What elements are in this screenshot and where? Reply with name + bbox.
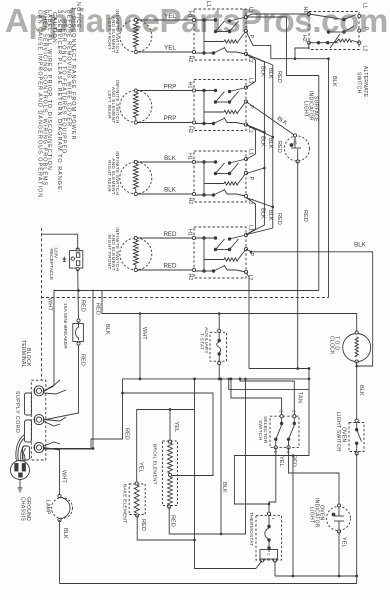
bus BLK vertical [246, 62, 264, 235]
label wire colors [164, 11, 193, 62]
svg-text:RED: RED [163, 263, 177, 270]
120V receptacle [62, 248, 83, 271]
svg-text:YEL: YEL [164, 13, 176, 20]
label broil element [152, 444, 158, 485]
wire T3 to lamp WHT [44, 448, 60, 496]
label RIGHT FRONT element name [107, 227, 120, 271]
element E1 (surface unit Left Front) [120, 18, 152, 53]
wire thermostat bottom left [256, 561, 262, 569]
svg-text:YEL: YEL [341, 537, 347, 548]
label BLK on staircase drop [331, 76, 337, 87]
infinite switch S1 [192, 9, 247, 60]
wire bottom collector y576 [275, 575, 357, 577]
wire oven light switch to bottom bus [356, 454, 358, 584]
svg-text:LIGHT: LIGHT [308, 507, 314, 523]
svg-text:BLK: BLK [260, 208, 266, 219]
svg-text:RECEPTACLE: RECEPTACLE [48, 249, 54, 281]
wire BLK bus P4 to right edge [246, 249, 373, 366]
selector switch [270, 415, 299, 449]
svg-text:PRP: PRP [164, 115, 177, 122]
wire clock to oven light switch BLK [356, 362, 358, 420]
element E4 (surface unit Right Front) [120, 236, 152, 271]
labels BLK BLK RED mid [260, 136, 282, 153]
wire H1 YEL [138, 19, 195, 21]
svg-text:RED: RED [140, 519, 146, 531]
svg-text:YEL: YEL [164, 45, 176, 52]
wire link L2_1 to L1_2 [246, 54, 256, 88]
svg-text:L1: L1 [248, 149, 254, 155]
svg-text:H2: H2 [187, 198, 193, 205]
svg-text:WHT: WHT [61, 470, 67, 483]
wire L2_4 drop to band [246, 273, 249, 369]
alternate switch [307, 12, 361, 50]
element E2 (surface unit Left Rear) [120, 89, 152, 124]
T.O.D. clock [343, 331, 371, 363]
wire riser x245.5 [221, 379, 246, 534]
svg-text:SWITCH: SWITCH [257, 420, 263, 440]
svg-text:CHASSIS: CHASSIS [20, 497, 26, 521]
svg-text:LAMP: LAMP [45, 500, 51, 515]
wire selector YEL to thermostat [269, 447, 276, 512]
svg-text:BLK: BLK [354, 242, 367, 249]
wire RED drop x93 [92, 290, 94, 449]
supply cord lugs [16, 393, 32, 462]
svg-text:15A MINI-BREAKER: 15A MINI-BREAKER [62, 303, 68, 349]
svg-text:BLK: BLK [164, 187, 177, 194]
svg-text:BLK: BLK [221, 482, 227, 493]
svg-text:ALTERNATE: ALTERNATE [362, 66, 368, 98]
wire WHT horizontal [54, 290, 319, 292]
labels BLK BLK RED top [260, 66, 282, 83]
wire thermostat-left riser [195, 410, 257, 569]
terminal wires fan [44, 380, 66, 446]
wire P2 to surface indicator light [246, 102, 295, 136]
svg-text:P: P [248, 253, 254, 257]
node L1 top [205, 1, 211, 7]
supply cord conductors [16, 435, 26, 462]
wire oven indicator light YEL down [338, 532, 340, 577]
wire H2 YEL [138, 51, 195, 53]
terminal block [31, 380, 46, 460]
wire alt switch H2 drop [295, 43, 309, 59]
wire H2 PRP [138, 122, 195, 124]
svg-text:H2: H2 [293, 139, 298, 145]
label LEFT FRONT element name [107, 9, 120, 53]
wire bottom bus [60, 583, 357, 585]
broil element [163, 440, 178, 508]
infinite switch S2 [192, 80, 247, 131]
svg-text:BLK: BLK [104, 324, 110, 335]
wire y389 [229, 379, 309, 390]
svg-text:H1: H1 [186, 82, 192, 89]
svg-text:CLOCK: CLOCK [329, 336, 335, 355]
wire broil bottom [168, 507, 170, 508]
wire fan L2_1 to buses [246, 54, 264, 62]
svg-text:RED: RED [80, 300, 86, 312]
notice and caution text block [37, 2, 81, 201]
wire x122.5 [44, 379, 123, 449]
label 120V receptacle [48, 247, 58, 280]
label chassis ground [20, 497, 32, 521]
svg-text:CAN CAUSE IMPROPER AND DANGERO: CAN CAUSE IMPROPER AND DANGEROUS OPERATI… [37, 10, 43, 201]
svg-text:RED: RED [276, 141, 282, 153]
wire band B1 [249, 368, 309, 370]
svg-text:LEFT REAR: LEFT REAR [107, 91, 112, 120]
wire link L2_3 to L1_4 [246, 198, 256, 235]
svg-text:T-STAT: T-STAT [199, 333, 205, 350]
svg-text:SUPPLY CORD: SUPPLY CORD [14, 391, 20, 433]
labels L1 P L2 [247, 78, 254, 134]
svg-text:PRP: PRP [164, 83, 177, 90]
auxiliary t-stat [210, 314, 227, 381]
wire H1 PRP [138, 90, 195, 92]
element E3 (surface unit Right Rear) [120, 160, 152, 195]
wire L1_1 east drop [246, 17, 319, 291]
svg-text:BLK: BLK [164, 155, 177, 162]
svg-text:L1: L1 [248, 225, 254, 231]
wire big loop to selector area [293, 369, 309, 577]
wire BLK riser x221 [169, 379, 221, 534]
svg-text:WHT: WHT [47, 298, 53, 311]
svg-text:H1: H1 [186, 153, 192, 160]
svg-text:YEL: YEL [138, 462, 144, 473]
bus RED vertical [246, 65, 273, 235]
label TOD clock [329, 336, 340, 355]
oven indicator light [327, 504, 351, 533]
label oven light switch [335, 412, 346, 451]
wire TAN to selector terminal 2 [240, 379, 294, 415]
wire lamp BLK to bottom bus [59, 520, 61, 584]
label wire colors [163, 229, 193, 280]
wire staircase P1 to BLK riser [246, 31, 329, 59]
bake element [129, 482, 145, 517]
wire WHT drop x140 [139, 314, 141, 379]
infinite switch S4 [192, 227, 247, 278]
wire surface light to band RED [297, 162, 299, 369]
wire loop extension to thermostat feed [234, 456, 293, 505]
svg-text:RED: RED [290, 455, 296, 467]
svg-text:H1: H1 [302, 7, 308, 14]
wire broil mid tap [123, 393, 214, 476]
svg-text:RED: RED [170, 515, 176, 527]
svg-text:BLK: BLK [358, 385, 364, 396]
labels BLK BLK RED lower [260, 208, 282, 225]
svg-text:RED: RED [95, 303, 101, 315]
svg-text:THERMOSTAT: THERMOSTAT [248, 512, 254, 546]
svg-text:P: P [362, 27, 368, 31]
wire receptacle to junction [77, 269, 80, 320]
label LEFT REAR element name [107, 80, 120, 124]
labels L1 P L2 [247, 225, 254, 281]
wire thermostat bottom right [274, 561, 276, 577]
label terminal block [20, 340, 31, 368]
svg-text:RED: RED [302, 210, 308, 222]
label wire colors [164, 153, 193, 204]
svg-text:BLK: BLK [260, 66, 266, 77]
console dashed boundary [41, 228, 43, 380]
svg-text:YEL: YEL [173, 422, 179, 433]
labels L1 P L2 [247, 7, 254, 63]
wire selector RED to oven indicator light [289, 447, 340, 504]
svg-text:RIGHT FRONT: RIGHT FRONT [107, 234, 112, 269]
svg-text:GROUND: GROUND [25, 497, 31, 521]
label supply cord [14, 391, 20, 433]
surface indicator light [285, 134, 310, 163]
wire H2 BLK [138, 193, 195, 195]
labels alternate switch [301, 3, 368, 98]
wire H2 RED [138, 269, 195, 271]
svg-text:L1: L1 [361, 3, 367, 9]
svg-text:L1: L1 [205, 1, 211, 7]
svg-text:BLK: BLK [267, 68, 273, 79]
svg-text:H2: H2 [187, 274, 193, 281]
lamp [52, 494, 73, 521]
label selector switch [257, 410, 296, 454]
svg-text:LIGHT: LIGHT [302, 101, 308, 117]
label bake element [122, 484, 128, 523]
wire drop x102 to aux feed line to clock [102, 291, 357, 332]
wire band B2 [123, 378, 310, 380]
svg-text:YEL: YEL [278, 456, 284, 467]
svg-text:H1: H1 [186, 11, 192, 18]
label oven indicator light [308, 498, 324, 528]
svg-text:P: P [248, 105, 254, 109]
svg-text:P: P [248, 177, 254, 181]
wire H1 RED [138, 237, 195, 239]
svg-text:H2: H2 [187, 56, 193, 63]
svg-text:RIGHT REAR: RIGHT REAR [107, 160, 112, 192]
svg-text:BLK: BLK [260, 136, 266, 147]
svg-text:WHT: WHT [141, 327, 147, 340]
wire bake feed [137, 379, 195, 482]
label RIGHT REAR element name [107, 151, 120, 195]
svg-text:2: 2 [291, 410, 296, 413]
label auxiliary t-stat [199, 327, 210, 354]
label surface indicator light [293, 91, 319, 145]
svg-text:3: 3 [279, 410, 284, 413]
svg-text:L1: L1 [248, 7, 254, 13]
label lamp [45, 500, 51, 515]
oven light switch [349, 419, 364, 455]
15A mini-breaker [73, 319, 84, 345]
wire BLK drop x102 [104, 324, 110, 335]
svg-text:H2: H2 [187, 126, 193, 133]
junction receptacle riser / WHT line [77, 289, 80, 292]
svg-text:TAN: TAN [297, 392, 303, 403]
svg-text:LIGHT SWITCH: LIGHT SWITCH [335, 412, 341, 451]
wire L1 box1 to alternate switch H1 [246, 14, 309, 17]
svg-text:BLOCK: BLOCK [25, 348, 31, 367]
wire receptacle top [41, 234, 78, 249]
wire WHT down to terminal T1 [44, 290, 54, 392]
thermostat [256, 512, 282, 562]
wire to selector terminal 3 [231, 379, 282, 415]
chassis ground symbol [19, 480, 21, 489]
label wire colors [164, 82, 193, 133]
svg-text:BLK: BLK [331, 76, 337, 87]
svg-text:BROIL ELEMENT: BROIL ELEMENT [152, 444, 158, 485]
svg-text:H1: H1 [186, 229, 192, 236]
wire link L2_2 to L1_3 [246, 125, 256, 160]
label 15A mini-breaker [62, 300, 86, 366]
svg-text:RED: RED [124, 428, 130, 440]
svg-text:RED: RED [276, 213, 282, 225]
svg-text:RED: RED [80, 354, 86, 366]
svg-text:RED: RED [163, 231, 177, 238]
svg-text:BLK: BLK [267, 210, 273, 221]
wire broil top feed [169, 410, 171, 441]
labels L1 P L2 [247, 149, 254, 205]
svg-text:BLK: BLK [267, 138, 273, 149]
wire T3 right RED [44, 448, 93, 450]
svg-text:L1: L1 [248, 78, 254, 84]
svg-text:SWITCH: SWITCH [355, 72, 361, 94]
wire H1 BLK [138, 161, 195, 163]
svg-text:RED: RED [276, 71, 282, 83]
infinite switch S3 [192, 151, 247, 202]
svg-text:BLK: BLK [62, 528, 68, 539]
wire staircase drop BLK [328, 59, 330, 298]
supply cord plug [11, 461, 30, 480]
label thermostat [248, 512, 276, 556]
svg-text:BAKE ELEMENT: BAKE ELEMENT [122, 484, 128, 523]
svg-text:1: 1 [273, 451, 278, 454]
svg-text:LEFT FRONT: LEFT FRONT [107, 18, 112, 50]
svg-text:H2: H2 [301, 35, 307, 42]
wire breaker to T2 [46, 345, 79, 420]
svg-text:L2: L2 [361, 46, 367, 52]
wire bake bottom RED [137, 516, 194, 541]
